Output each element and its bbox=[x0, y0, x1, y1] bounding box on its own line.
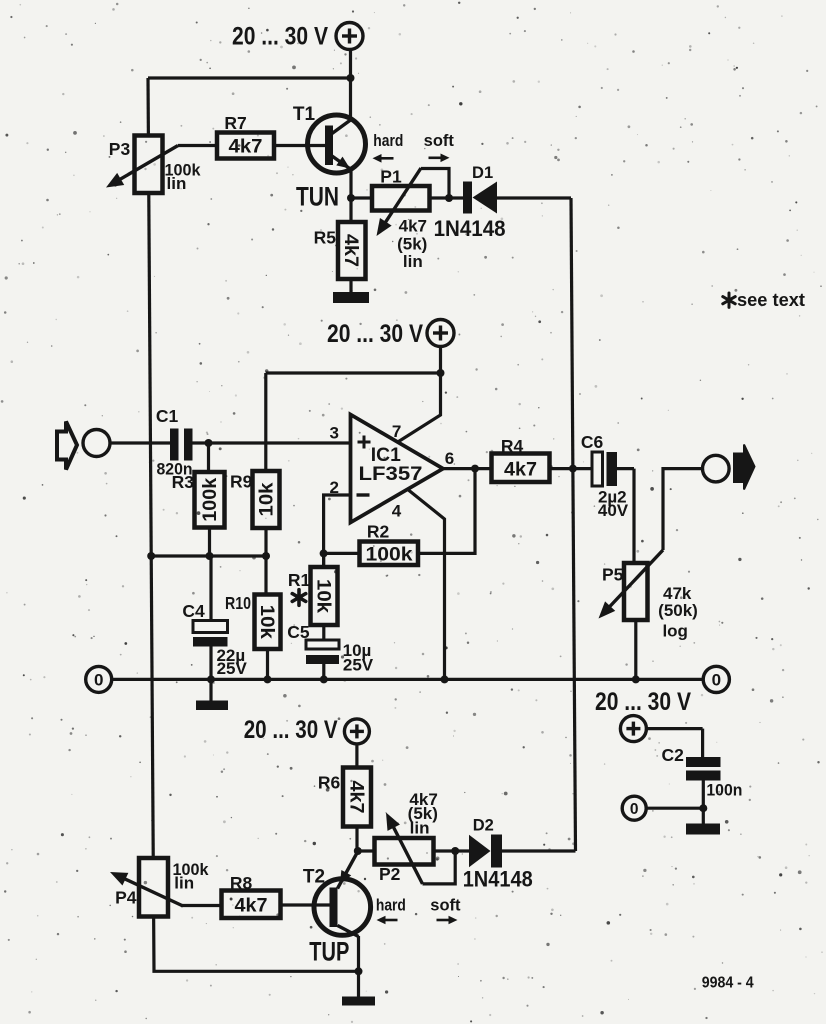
svg-text:7: 7 bbox=[392, 422, 401, 441]
svg-text:P4: P4 bbox=[115, 888, 137, 908]
svg-text:10k: 10k bbox=[257, 482, 278, 516]
svg-text:4k7: 4k7 bbox=[399, 217, 427, 236]
svg-text:4k7: 4k7 bbox=[229, 136, 263, 158]
svg-text:4k7: 4k7 bbox=[504, 459, 537, 481]
svg-text:R9: R9 bbox=[230, 472, 253, 492]
svg-text:lin: lin bbox=[167, 174, 187, 193]
svg-text:10k: 10k bbox=[256, 605, 277, 639]
svg-text:TUP: TUP bbox=[309, 937, 349, 967]
svg-text:P5: P5 bbox=[602, 565, 624, 585]
svg-text:R10: R10 bbox=[225, 593, 251, 613]
svg-text:C1: C1 bbox=[156, 406, 179, 426]
svg-text:100k: 100k bbox=[366, 544, 413, 566]
svg-text:D1: D1 bbox=[472, 164, 493, 182]
svg-text:R7: R7 bbox=[224, 113, 246, 133]
svg-text:4k7: 4k7 bbox=[235, 895, 268, 917]
svg-text:0: 0 bbox=[630, 801, 639, 818]
svg-text:4k7: 4k7 bbox=[340, 234, 361, 267]
svg-text:10k: 10k bbox=[312, 579, 333, 613]
svg-text:R5: R5 bbox=[314, 228, 337, 248]
svg-text:1N4148: 1N4148 bbox=[463, 867, 533, 892]
svg-text:C6: C6 bbox=[581, 432, 604, 452]
svg-text:TUN: TUN bbox=[296, 182, 339, 212]
svg-text:4k7: 4k7 bbox=[345, 781, 366, 814]
svg-text:20 ... 30 V: 20 ... 30 V bbox=[595, 688, 691, 716]
svg-text:100k: 100k bbox=[200, 477, 221, 521]
svg-text:hard: hard bbox=[376, 897, 406, 915]
svg-text:25V: 25V bbox=[217, 659, 248, 678]
svg-text:D2: D2 bbox=[473, 817, 494, 835]
svg-text:soft: soft bbox=[424, 132, 455, 150]
svg-text:20 ... 30 V: 20 ... 30 V bbox=[327, 320, 423, 348]
svg-text:R6: R6 bbox=[318, 773, 341, 793]
svg-text:P2: P2 bbox=[379, 864, 401, 884]
svg-text:lin: lin bbox=[174, 874, 194, 893]
svg-text:25V: 25V bbox=[343, 656, 374, 675]
svg-text:R1: R1 bbox=[288, 570, 311, 590]
svg-text:C2: C2 bbox=[662, 745, 685, 765]
svg-text:soft: soft bbox=[430, 897, 461, 915]
svg-text:C4: C4 bbox=[182, 601, 205, 621]
svg-text:see text: see text bbox=[737, 290, 805, 310]
svg-text:3: 3 bbox=[330, 424, 339, 443]
svg-text:T2: T2 bbox=[303, 867, 325, 888]
svg-text:20 ... 30 V: 20 ... 30 V bbox=[244, 716, 338, 744]
svg-text:lin: lin bbox=[410, 818, 430, 837]
svg-text:1N4148: 1N4148 bbox=[434, 216, 506, 241]
svg-text:P3: P3 bbox=[109, 139, 131, 159]
svg-text:2: 2 bbox=[330, 478, 339, 497]
svg-text:20 ... 30 V: 20 ... 30 V bbox=[232, 23, 328, 51]
svg-text:(5k): (5k) bbox=[397, 235, 427, 254]
svg-text:0: 0 bbox=[94, 671, 103, 690]
svg-text:log: log bbox=[662, 622, 688, 641]
svg-text:T1: T1 bbox=[293, 104, 316, 125]
svg-text:C5: C5 bbox=[287, 622, 310, 642]
svg-text:P1: P1 bbox=[380, 167, 402, 187]
svg-text:R4: R4 bbox=[501, 436, 524, 456]
svg-text:6: 6 bbox=[445, 449, 454, 468]
svg-text:9984 - 4: 9984 - 4 bbox=[702, 975, 754, 992]
svg-text:lin: lin bbox=[403, 252, 423, 271]
svg-text:R2: R2 bbox=[367, 522, 390, 542]
svg-text:hard: hard bbox=[373, 132, 403, 150]
svg-text:820n: 820n bbox=[157, 460, 193, 479]
svg-text:R8: R8 bbox=[230, 873, 253, 893]
svg-text:(50k): (50k) bbox=[658, 601, 698, 620]
svg-text:40V: 40V bbox=[598, 501, 629, 520]
svg-text:4: 4 bbox=[392, 502, 402, 521]
svg-text:100n: 100n bbox=[706, 781, 742, 800]
svg-text:LF357: LF357 bbox=[359, 463, 423, 485]
svg-text:0: 0 bbox=[712, 671, 721, 690]
